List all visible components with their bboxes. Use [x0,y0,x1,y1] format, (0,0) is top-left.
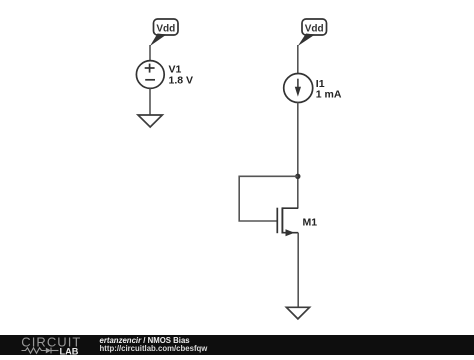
svg-text:Vdd: Vdd [305,24,324,35]
svg-text:LAB: LAB [60,347,79,355]
svg-text:http://circuitlab.com/cbesfqw: http://circuitlab.com/cbesfqw [100,344,209,353]
svg-text:M1: M1 [303,217,318,229]
svg-text:V1: V1 [169,63,182,75]
svg-text:1.8 V: 1.8 V [169,75,194,87]
svg-text:Vdd: Vdd [156,24,175,35]
svg-text:1 mA: 1 mA [316,89,342,101]
